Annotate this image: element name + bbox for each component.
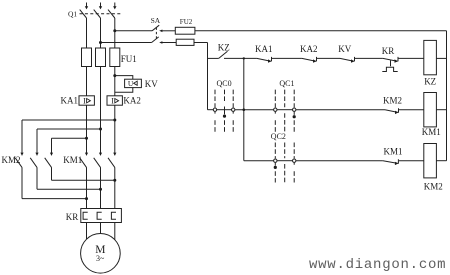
svg-text:KA2: KA2 <box>123 96 140 106</box>
svg-text:KV: KV <box>145 79 158 89</box>
svg-text:KM2: KM2 <box>424 181 443 191</box>
svg-text:FU2: FU2 <box>180 18 193 26</box>
svg-text:QC0: QC0 <box>217 79 232 88</box>
svg-text:QC1: QC1 <box>279 79 294 88</box>
svg-text:SA: SA <box>151 16 161 25</box>
svg-text:KA2: KA2 <box>300 44 318 54</box>
svg-text:I: I <box>83 96 86 105</box>
svg-text:U: U <box>128 79 134 88</box>
svg-text:QC2: QC2 <box>271 132 286 141</box>
svg-text:www.diangon.com: www.diangon.com <box>309 257 446 273</box>
svg-text:FU1: FU1 <box>121 54 137 64</box>
svg-text:KA1: KA1 <box>255 44 273 54</box>
svg-text:KM1: KM1 <box>422 127 441 137</box>
svg-text:KR: KR <box>66 212 79 222</box>
svg-text:KV: KV <box>338 44 351 54</box>
svg-text:KM2: KM2 <box>2 155 21 165</box>
svg-text:I: I <box>111 96 114 105</box>
svg-text:Q1: Q1 <box>68 9 77 18</box>
svg-text:KM2: KM2 <box>383 95 402 105</box>
svg-text:3~: 3~ <box>96 254 105 263</box>
svg-text:KM1: KM1 <box>384 147 403 157</box>
svg-text:KR: KR <box>382 46 395 56</box>
svg-text:KZ: KZ <box>218 43 230 53</box>
svg-text:KA1: KA1 <box>61 96 79 106</box>
svg-text:KM1: KM1 <box>63 155 82 165</box>
svg-text:KZ: KZ <box>424 77 436 87</box>
